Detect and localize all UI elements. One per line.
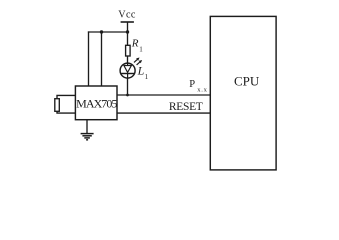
wire vertical to IC top pin 1 [88,31,90,86]
wire IC lower pin to CPU (RESET line) [117,112,210,114]
resistor (unlabeled, on IC left pins) [55,99,60,112]
svg-text:Vcc: Vcc [118,10,136,21]
svg-text:1: 1 [145,73,149,81]
wire IC RESET output to CPU (node Px.x) [117,94,210,96]
junction at Vcc wire and pin-2 wire [100,30,103,33]
svg-text:R: R [131,37,139,49]
svg-text:RESET: RESET [169,101,203,113]
svg-text:1: 1 [139,45,143,53]
label R1 [131,37,143,53]
label MAX705 [76,96,117,110]
label CPU [234,74,260,89]
wire horizontal Vcc feed to IC top pins [88,31,128,33]
wire R1 to LED [127,56,129,63]
wire resistor bottom to IC left pin [57,111,75,113]
LED L1 emission arrows [134,58,142,65]
svg-text:CPU: CPU [234,74,260,89]
power rail Vcc label [118,10,136,21]
svg-text:x.x: x.x [197,87,207,94]
junction at LED branch and Px.x wire [126,94,129,97]
IC U1 MAX705 body [75,86,117,120]
LED L1 [120,63,135,78]
wire Vcc stem down to node [127,22,129,46]
net label RESET [169,101,203,113]
power rail Vcc bar [121,21,134,23]
svg-text:MAX705: MAX705 [76,96,117,110]
junction at Vcc stem [126,30,129,33]
wire IC bottom to ground [86,120,88,134]
wire vertical to IC top pin 2 [101,32,103,87]
wire LED to RESET-node wire [127,78,129,95]
svg-text:P: P [189,79,195,90]
label L1 [137,64,149,81]
wire resistor top to IC left pin [57,95,75,98]
CPU block [210,16,276,170]
node label Px.x [189,79,207,94]
svg-text:L: L [137,64,145,78]
ground [81,134,94,140]
resistor R1 [126,45,131,56]
